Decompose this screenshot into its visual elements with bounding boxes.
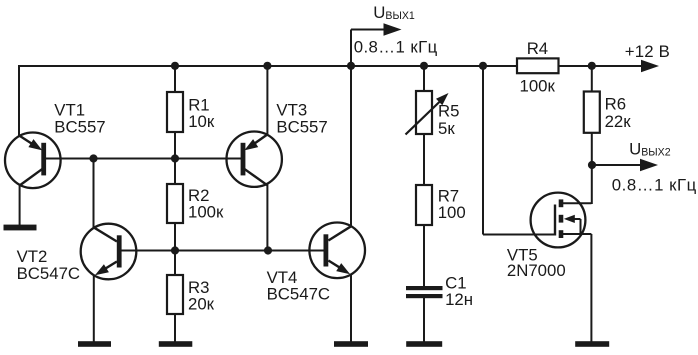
svg-text:BC547C: BC547C <box>17 264 80 283</box>
svg-text:R5: R5 <box>438 102 459 121</box>
svg-text:0.8…1 кГц: 0.8…1 кГц <box>612 176 697 195</box>
svg-text:100к: 100к <box>188 203 224 222</box>
svg-text:10к: 10к <box>188 112 215 131</box>
svg-text:BC557: BC557 <box>54 118 105 137</box>
svg-text:0.8…1 кГц: 0.8…1 кГц <box>354 37 438 56</box>
svg-text:BC557: BC557 <box>276 118 327 137</box>
svg-text:R6: R6 <box>605 94 626 113</box>
svg-text:2N7000: 2N7000 <box>507 261 566 280</box>
svg-text:22к: 22к <box>605 112 632 131</box>
svg-text:100к: 100к <box>520 76 556 95</box>
svg-text:12н: 12н <box>445 290 473 309</box>
svg-text:5к: 5к <box>438 119 455 138</box>
svg-text:VT1: VT1 <box>54 100 85 119</box>
svg-text:+12 В: +12 В <box>625 42 670 61</box>
svg-text:100: 100 <box>438 203 466 222</box>
svg-text:VT3: VT3 <box>276 100 307 119</box>
svg-text:R4: R4 <box>527 39 548 58</box>
svg-text:BC547C: BC547C <box>267 284 330 303</box>
svg-text:20к: 20к <box>188 295 215 314</box>
